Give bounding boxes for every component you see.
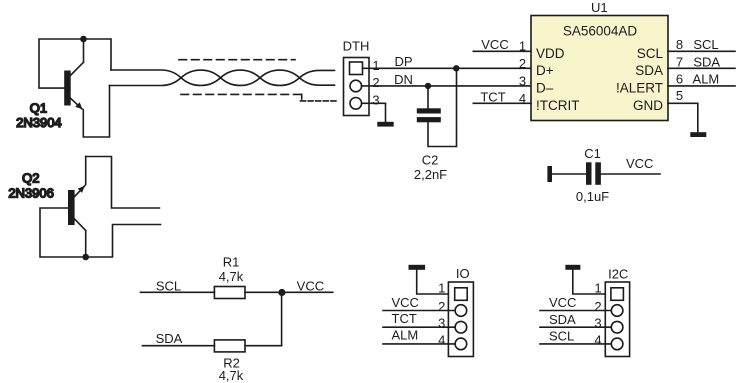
svg-text:2: 2 xyxy=(372,75,379,90)
wire I2C pin1 to ground xyxy=(573,270,611,294)
svg-text:ALM: ALM xyxy=(392,328,419,343)
svg-text:6: 6 xyxy=(676,72,683,87)
svg-text:VCC: VCC xyxy=(626,156,653,171)
IO pin 1 square xyxy=(455,288,468,301)
ground (U1 GND) xyxy=(690,132,706,137)
svg-text:2: 2 xyxy=(438,299,445,314)
U1 pin 6 wire (ALERT) xyxy=(668,85,735,87)
svg-text:4,7k: 4,7k xyxy=(219,368,244,383)
svg-text:SCL: SCL xyxy=(549,329,574,344)
I2C pin 2 circle xyxy=(611,305,623,317)
svg-text:U1: U1 xyxy=(591,0,608,15)
svg-text:1: 1 xyxy=(519,39,526,54)
svg-text:VCC: VCC xyxy=(392,295,419,310)
cable shield dashed stub to DTH pin 3 xyxy=(301,100,337,102)
svg-text:SDA: SDA xyxy=(156,331,183,346)
U1 pin 5 wire (GND) xyxy=(668,103,698,132)
connector I2C body xyxy=(605,282,629,357)
IO pin 3 circle xyxy=(455,321,467,333)
svg-text:DTH: DTH xyxy=(343,39,370,54)
wire IO pin1 to ground xyxy=(417,270,455,294)
U1 pin 7 wire (SDA) xyxy=(668,67,735,69)
wire DTH pin3 to ground xyxy=(362,103,386,121)
svg-text:TCT: TCT xyxy=(480,90,505,105)
svg-text:SCL: SCL xyxy=(693,37,718,52)
DTH pin 2 circle xyxy=(350,80,362,92)
svg-text:SCL: SCL xyxy=(637,46,664,61)
svg-text:2N3904: 2N3904 xyxy=(16,115,62,130)
wire VCC junction down to R2 xyxy=(281,292,283,345)
svg-text:VCC: VCC xyxy=(297,279,324,294)
wire ALM to IO pin4 xyxy=(383,343,455,345)
svg-text:DP: DP xyxy=(394,54,412,69)
svg-text:SDA: SDA xyxy=(693,55,720,70)
wire Q2 base loop xyxy=(40,208,86,257)
svg-text:VDD: VDD xyxy=(536,46,565,61)
svg-text:!ALERT: !ALERT xyxy=(616,81,663,96)
svg-text:TCT: TCT xyxy=(392,311,417,326)
connector IO body xyxy=(448,282,473,357)
cable shield dashed bottom xyxy=(181,93,302,95)
wire Q2 collector output xyxy=(86,225,161,258)
svg-text:C1: C1 xyxy=(584,146,601,161)
transistor Q2 xyxy=(68,157,86,258)
svg-text:C2: C2 xyxy=(422,153,439,168)
wire SCL to I2C pin4 xyxy=(540,343,611,345)
svg-text:I2C: I2C xyxy=(608,267,628,282)
node R1/R2 VCC junction xyxy=(278,289,285,296)
wire SDA to I2C pin3 xyxy=(540,326,611,328)
svg-text:SDA: SDA xyxy=(635,63,663,78)
wire Q2 emitter output xyxy=(86,157,160,209)
U1 pin 8 wire (SCL) xyxy=(668,50,735,52)
svg-text:R1: R1 xyxy=(223,255,240,270)
ground (I2C pin1) xyxy=(565,265,580,270)
node Q2 base-collector junction xyxy=(82,254,89,261)
DTH pin 3 circle xyxy=(350,98,362,110)
wire SDA to R2 xyxy=(142,345,214,347)
ground (DTH shield) xyxy=(377,122,393,127)
svg-text:SA56004AD: SA56004AD xyxy=(563,24,638,39)
wire Q1 base-collector loop xyxy=(39,39,84,88)
svg-text:1: 1 xyxy=(438,281,445,296)
svg-text:3: 3 xyxy=(519,74,526,89)
wire Q1 collector to cable top xyxy=(84,39,112,70)
wire VCC to IO pin2 xyxy=(383,310,455,312)
resistor R2 xyxy=(214,340,245,352)
svg-text:3: 3 xyxy=(594,316,601,331)
svg-text:1: 1 xyxy=(594,281,601,296)
wire R1 to VCC xyxy=(245,291,333,293)
svg-text:7: 7 xyxy=(676,55,683,70)
svg-text:5: 5 xyxy=(676,88,683,103)
wire VCC to I2C pin2 xyxy=(540,310,611,312)
svg-text:2,2nF: 2,2nF xyxy=(414,167,447,182)
IC U1 body xyxy=(531,16,668,121)
wire DP net: DTH pin1 to U1 D+ xyxy=(363,67,532,69)
svg-text:8: 8 xyxy=(676,37,683,52)
svg-text:SDA: SDA xyxy=(549,312,576,327)
svg-text:2: 2 xyxy=(594,299,601,314)
wire TCT to IO pin3 xyxy=(383,326,455,328)
svg-text:3: 3 xyxy=(372,93,379,108)
wire DN net: DTH pin2 to U1 D- xyxy=(362,85,531,87)
svg-text:D+: D+ xyxy=(536,63,554,78)
ground (IO pin1) xyxy=(409,265,426,270)
svg-text:Q2: Q2 xyxy=(22,171,39,186)
svg-text:4,7k: 4,7k xyxy=(219,269,244,284)
svg-text:Q1: Q1 xyxy=(30,101,47,116)
cable shield dashed top xyxy=(179,59,295,61)
svg-text:4: 4 xyxy=(594,332,601,347)
svg-text:VCC: VCC xyxy=(549,295,576,310)
U1 pin 4 wire (TCRIT) xyxy=(473,102,531,104)
U1 pin 1 wire (VDD) xyxy=(473,50,531,52)
svg-text:VCC: VCC xyxy=(481,37,508,52)
svg-text:SCL: SCL xyxy=(156,279,181,294)
svg-text:GND: GND xyxy=(633,98,663,113)
IO pin 4 circle xyxy=(455,338,467,350)
transistor Q1 xyxy=(64,39,83,109)
DTH pin 1 square xyxy=(350,62,363,75)
svg-text:2: 2 xyxy=(519,56,526,71)
resistor R1 xyxy=(214,287,245,299)
capacitor C1 xyxy=(547,162,660,185)
svg-text:IO: IO xyxy=(456,266,470,281)
node DN junction xyxy=(425,83,431,89)
svg-text:0,1uF: 0,1uF xyxy=(576,189,609,204)
svg-text:DN: DN xyxy=(394,72,413,87)
twisted pair cable bottom strand xyxy=(110,70,335,85)
twisted pair cable top strand xyxy=(111,70,335,85)
cable shield step tick xyxy=(301,94,303,99)
svg-text:2N3906: 2N3906 xyxy=(8,185,54,200)
svg-text:3: 3 xyxy=(438,316,445,331)
connector DTH body xyxy=(344,58,370,116)
I2C pin 4 circle xyxy=(611,338,623,350)
svg-text:4: 4 xyxy=(438,332,445,347)
wire R2 to junction xyxy=(245,345,282,347)
svg-text:1: 1 xyxy=(372,58,379,73)
wire SCL to R1 xyxy=(141,291,215,293)
svg-text:ALM: ALM xyxy=(693,72,720,87)
svg-text:4: 4 xyxy=(519,91,526,106)
svg-text:D–: D– xyxy=(536,81,554,96)
I2C pin 1 square xyxy=(611,288,624,301)
wire Q1 emitter to cable bottom xyxy=(83,86,109,138)
node DP junction xyxy=(453,65,459,71)
I2C pin 3 circle xyxy=(611,321,623,333)
IO pin 2 circle xyxy=(455,305,467,317)
node Q1 base-collector junction xyxy=(80,36,87,43)
capacitor C2 xyxy=(417,68,457,146)
svg-text:!TCRIT: !TCRIT xyxy=(536,98,580,113)
